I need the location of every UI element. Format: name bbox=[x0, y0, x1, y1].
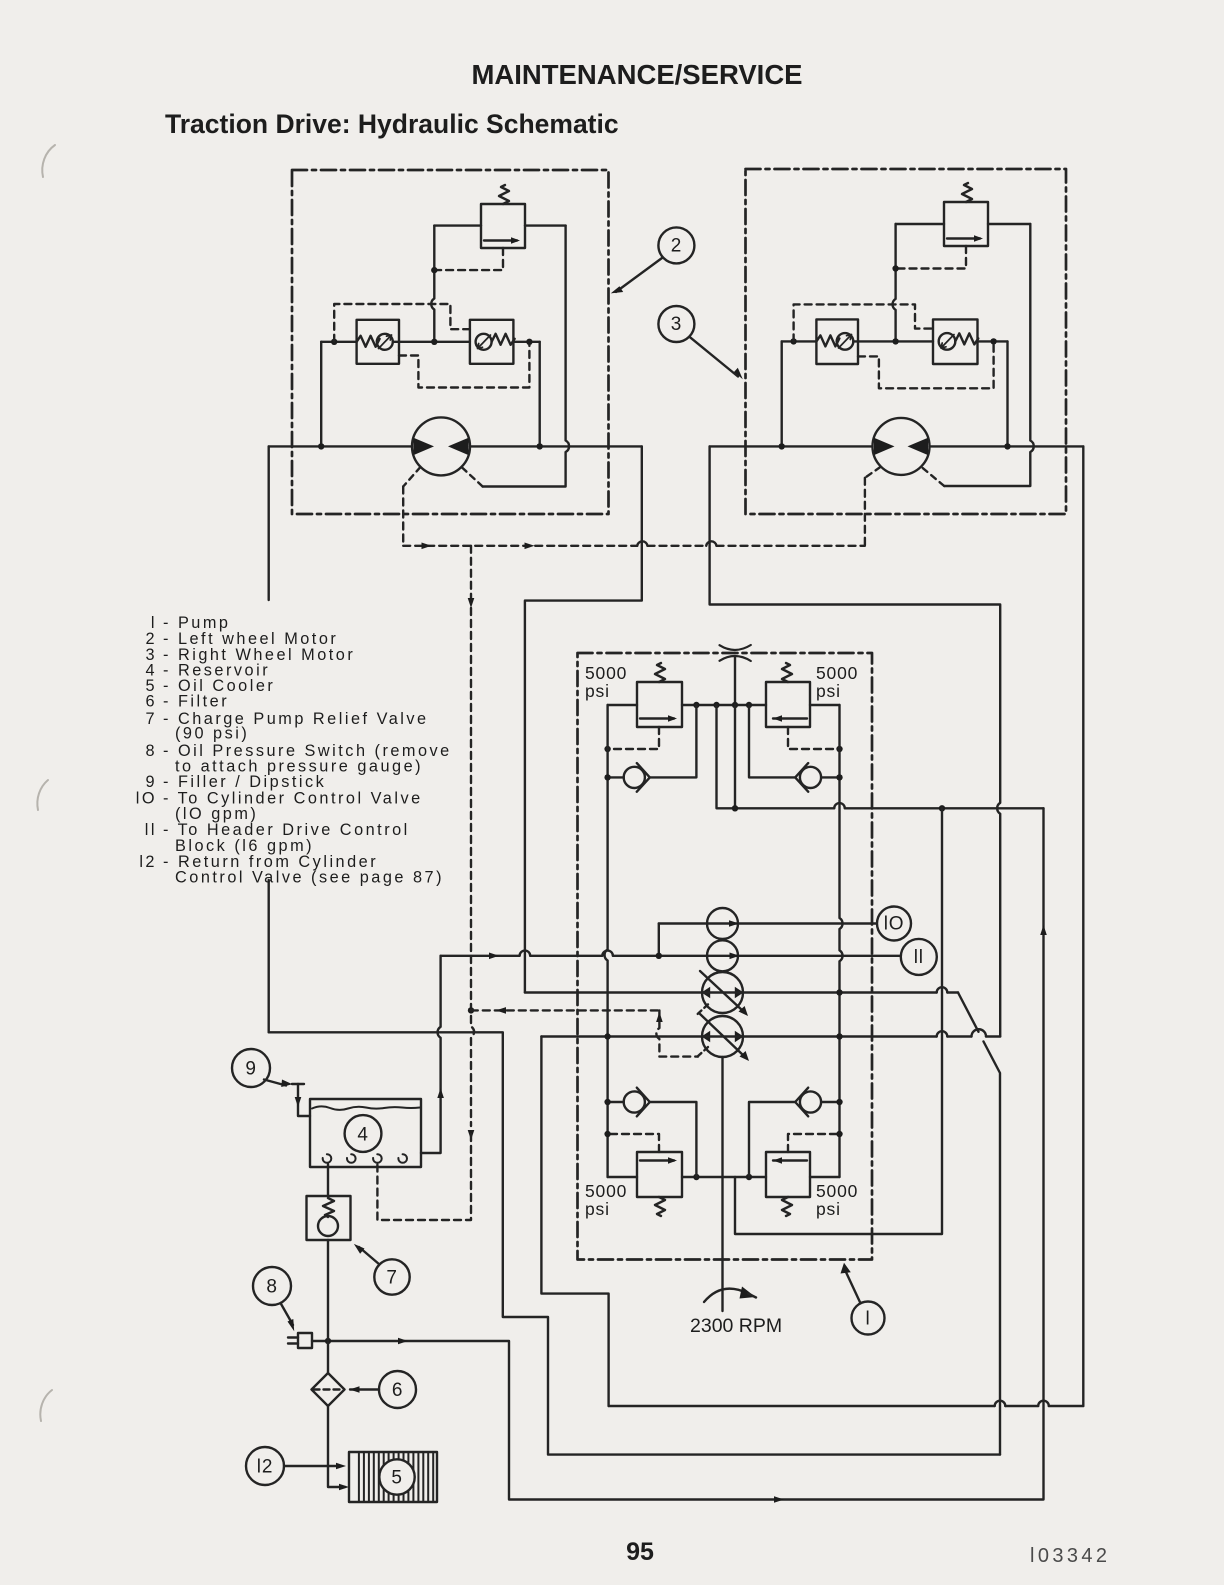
callout 7 leader bbox=[359, 1247, 380, 1265]
check valve CV2 seat bbox=[795, 763, 808, 792]
crossover valve cartridge A poppet circle bbox=[377, 334, 393, 350]
wire vertical from relief left down to valve line (jog) bbox=[893, 224, 896, 341]
relief valve RV4 (5000 psi lower-right) body bbox=[766, 1152, 810, 1197]
arrowhead charge line left bbox=[489, 953, 499, 960]
relief drain line y1177 bbox=[608, 1176, 840, 1178]
wire relief7 to switch junction bbox=[327, 1240, 329, 1373]
filter (item 6) diamond bbox=[312, 1373, 345, 1406]
pilot dashed lower (cartridge A drain loop) bbox=[399, 345, 529, 388]
node y1177 riser C bbox=[693, 1174, 699, 1180]
pilot dashed relief valve drain bbox=[434, 248, 503, 270]
main pump PA displacement arrow bbox=[700, 971, 743, 1011]
arrowhead down on filler line bbox=[295, 1097, 302, 1107]
wire CV1 left bbox=[608, 776, 624, 778]
servo pilot dashed riser with jog bbox=[656, 1010, 698, 1056]
jog y955.8 over x524.9 bbox=[520, 951, 531, 956]
crossover valve cartridge D body bbox=[933, 319, 978, 364]
main pump PB displacement arrow bbox=[700, 1014, 744, 1056]
charge pump relief valve (item 7) body bbox=[307, 1196, 351, 1240]
wire valve line left leg down to motor line bbox=[320, 342, 322, 447]
wire pump line B left end down-step to bottom runs bbox=[541, 1037, 608, 1407]
wire CV2 to riser B bbox=[749, 705, 795, 777]
relief valve RV3 internal arrow bbox=[640, 1159, 674, 1161]
crossover valve cartridge D spring bbox=[955, 333, 978, 344]
check valve CV4 circle bbox=[800, 1091, 821, 1112]
svg-text:9: 9 bbox=[145, 773, 157, 791]
relief valve RV2 (5000 psi upper-right) body bbox=[766, 682, 810, 727]
inlet strainer crossing symbol bbox=[720, 645, 751, 661]
callout 9 circle bbox=[232, 1049, 270, 1087]
check valve CV4 seat bbox=[795, 1088, 808, 1117]
node y705 strainer stem bbox=[732, 702, 738, 708]
enclosure box (left wheel motor assembly) bbox=[292, 170, 609, 514]
wire dashed diagonal to motor case (right) bbox=[922, 467, 945, 486]
main pump PA triangles bbox=[702, 987, 711, 999]
node y705 feed bbox=[713, 702, 719, 708]
svg-text:8: 8 bbox=[266, 1277, 277, 1298]
servo stub to pump PB bbox=[697, 1047, 708, 1057]
relief valve (right box) spring bbox=[962, 183, 972, 202]
charge feed line y808 bbox=[717, 705, 1044, 808]
svg-text:(90 psi): (90 psi) bbox=[175, 725, 249, 743]
drain bus arrowhead 1 bbox=[422, 543, 432, 550]
main pump PA circle bbox=[702, 972, 743, 1013]
crossover valve cartridge D poppet circle bbox=[939, 333, 956, 350]
wire right motor left end down-step to pump B line bbox=[710, 446, 1001, 1036]
oil pressure switch line y1341 bbox=[312, 808, 1044, 1499]
dashed return riser (legend side) main bbox=[471, 608, 474, 1126]
node valve line center junction bbox=[431, 339, 437, 345]
svg-text:8: 8 bbox=[145, 742, 157, 760]
charge pump relief spring bbox=[323, 1198, 334, 1217]
node RV4 pilot tap bbox=[836, 1131, 842, 1137]
node CV2 tap on HP rail bbox=[836, 774, 842, 780]
drain bus jog over right feed vertical bbox=[706, 541, 716, 545]
wire dashed case drain vertical to bus bbox=[864, 478, 866, 546]
svg-text:psi: psi bbox=[585, 1199, 610, 1219]
arrowhead P2 outlet bbox=[730, 953, 740, 960]
relief valve RV4 spring (below) bbox=[782, 1197, 792, 1216]
relief valve RV4 internal arrow bbox=[773, 1159, 807, 1161]
svg-text:4: 4 bbox=[357, 1125, 368, 1146]
relief valve RV2 internal arrow bbox=[773, 717, 807, 719]
callout 8 circle bbox=[253, 1267, 291, 1305]
main pump PB triangles bbox=[702, 1031, 711, 1043]
drain bus jog over left feed vertical bbox=[637, 541, 647, 545]
callout 8 leader bbox=[281, 1303, 294, 1325]
relief valve RV4 pilot dashed bbox=[788, 1134, 840, 1152]
relief valve RV1 spring bbox=[655, 663, 665, 682]
filter element dashed bbox=[314, 1388, 344, 1390]
arrowhead up on suction line bbox=[437, 1088, 444, 1098]
node motor line left valve leg bbox=[779, 443, 785, 449]
callout 12 leader bbox=[284, 1465, 336, 1467]
svg-text:lO: lO bbox=[136, 790, 157, 808]
wire right motor right end long vertical to bottom bbox=[1082, 446, 1084, 1406]
svg-text:psi: psi bbox=[585, 681, 610, 701]
svg-text:7: 7 bbox=[145, 710, 157, 728]
svg-text:ll: ll bbox=[145, 821, 157, 839]
svg-text:Control Valve (see page 87): Control Valve (see page 87) bbox=[175, 869, 444, 887]
reservoir outlet cup 3 bbox=[373, 1154, 382, 1163]
pilot dashed lower (cartridge C drain loop) bbox=[858, 345, 994, 389]
callout 3 leader bbox=[690, 337, 739, 377]
charge line y955.8 with jogs bbox=[441, 955, 901, 957]
HP rail right vertical (with jogs at charge lines) bbox=[840, 705, 843, 1177]
pilot dashed relief drain bbox=[896, 246, 966, 269]
filler/dipstick tick bbox=[292, 1083, 304, 1085]
charge pump P1 flow line + arrow bbox=[659, 922, 877, 924]
reservoir outlet cup 1 bbox=[323, 1154, 332, 1163]
wire valve line right leg down bbox=[1006, 341, 1008, 446]
node dashed return tee bbox=[468, 1007, 474, 1013]
crossover valve line (right box) bbox=[782, 340, 1008, 342]
jog y955.8 over HP left rail bbox=[602, 951, 613, 956]
svg-text:5: 5 bbox=[391, 1468, 402, 1489]
wire P1 branch from charge line bbox=[658, 924, 660, 956]
relief valve (left box) body bbox=[481, 204, 525, 248]
node CV3 tap bbox=[604, 1099, 610, 1105]
svg-text:psi: psi bbox=[816, 1199, 841, 1219]
relief valve RV3 spring (below) bbox=[655, 1197, 665, 1216]
callout 9 leader bbox=[264, 1080, 286, 1086]
svg-text:- Filler / Dipstick: - Filler / Dipstick bbox=[163, 773, 326, 791]
pilot dashed upper (to cartridge D) bbox=[794, 304, 933, 341]
wire vertical relief-right down across motor line (jog) to loop bbox=[944, 224, 1034, 486]
jog y1406 over x1043.5 bbox=[1038, 1401, 1049, 1406]
bottom run y1406 bbox=[609, 1405, 1084, 1407]
arrowhead on switch line bbox=[398, 1338, 408, 1345]
svg-text:psi: psi bbox=[816, 681, 841, 701]
jog pump line B over outlet drop bbox=[937, 1031, 948, 1036]
arrowhead up on servo riser bbox=[656, 1012, 663, 1022]
wire CV4 right bbox=[821, 1101, 839, 1103]
svg-text:MAINTENANCE/SERVICE: MAINTENANCE/SERVICE bbox=[471, 59, 802, 90]
wire relief left port to vertical bbox=[896, 223, 944, 225]
relief valve RV1 pilot dashed bbox=[608, 727, 659, 749]
jog y808 over HP rail bbox=[834, 803, 845, 808]
charge junction line y705 bbox=[608, 704, 840, 706]
node y808 outlet tee bbox=[939, 805, 945, 811]
node motor line right valve leg bbox=[537, 443, 543, 449]
crossover valve cartridge D arrow bbox=[941, 335, 954, 349]
relief valve RV1 (5000 psi upper-left) body bbox=[637, 682, 682, 727]
oil cooler fins bbox=[359, 1452, 433, 1502]
node P1 branch tee bbox=[656, 953, 662, 959]
wire strainer branch to y808 bbox=[734, 705, 736, 808]
enclosure box (right wheel motor assembly) bbox=[746, 169, 1067, 514]
callout 1 leader bbox=[845, 1270, 861, 1303]
jog pump line B over diagonal bbox=[972, 1029, 987, 1036]
crossover valve cartridge B spring bbox=[492, 334, 515, 345]
reservoir outlet cup 4 bbox=[398, 1154, 407, 1163]
arrowhead down on return riser lower bbox=[468, 1130, 475, 1140]
svg-text:5000: 5000 bbox=[816, 663, 858, 683]
svg-text:Traction Drive: Hydraulic Sche: Traction Drive: Hydraulic Schematic bbox=[165, 109, 619, 139]
charge pump relief poppet circle bbox=[318, 1216, 338, 1236]
relief valve RV2 spring bbox=[782, 663, 792, 682]
svg-text:5000: 5000 bbox=[816, 1181, 858, 1201]
motor M3 right triangle bbox=[908, 438, 929, 455]
node pump line B left tap bbox=[604, 1033, 610, 1039]
callout 12 circle bbox=[246, 1447, 284, 1485]
charge suction line to reservoir (vertical x440.6) bbox=[421, 956, 441, 1153]
svg-text:95: 95 bbox=[626, 1538, 654, 1566]
wire CV1 to riser A bbox=[650, 705, 697, 777]
crossover valve line (horizontal through both cartridges) bbox=[321, 341, 540, 343]
svg-text:l: l bbox=[865, 1309, 870, 1330]
jog pump line A over outlet drop bbox=[937, 987, 948, 992]
wire vertical relief-right down across motor line (jog) to loop bbox=[483, 226, 569, 487]
callout 7 circle bbox=[374, 1259, 409, 1294]
node CV4 tap bbox=[836, 1099, 842, 1105]
relief valve (right box) body bbox=[944, 202, 988, 246]
relief valve RV3 (5000 psi lower-left) body bbox=[637, 1152, 682, 1197]
arrowhead up on right return x1043.5 bbox=[1040, 925, 1047, 935]
node valve line center junction bbox=[892, 338, 898, 344]
node relief pilot junction bbox=[431, 267, 437, 273]
svg-text:- Filter: - Filter bbox=[163, 693, 229, 711]
wire left motor right end down-step to pump A line bbox=[525, 446, 642, 992]
node y705 riser A bbox=[693, 702, 699, 708]
node relief pilot junction bbox=[892, 265, 898, 271]
wire relief left port to vertical bbox=[434, 224, 481, 226]
HP rail left vertical bbox=[605, 705, 608, 1177]
svg-text:5000: 5000 bbox=[585, 1181, 627, 1201]
wire vertical from relief left down to valve line (with jog over pilot dashes) bbox=[431, 226, 434, 342]
pump line A y992.5 bbox=[525, 991, 958, 993]
crossover valve cartridge C body bbox=[816, 319, 858, 364]
callout 1 circle bbox=[852, 1302, 885, 1335]
wire CV3 left bbox=[608, 1101, 624, 1103]
wire valve line right leg down to motor line bbox=[539, 342, 541, 447]
reservoir tank body bbox=[310, 1099, 421, 1167]
wire dashed diagonal to motor case (right) bbox=[462, 467, 483, 487]
node RV2 pilot tap bbox=[836, 746, 842, 752]
wire filter to cooler bbox=[328, 1406, 345, 1487]
dashed return riser (legend side) top bbox=[470, 546, 472, 600]
node valve line right pilot tap bbox=[990, 338, 996, 344]
svg-text:l2: l2 bbox=[139, 853, 157, 871]
svg-text:l2: l2 bbox=[257, 1457, 273, 1478]
charge pump P2 circle bbox=[707, 940, 738, 971]
node motor line right valve leg bbox=[1004, 443, 1010, 449]
motor line (right box main horizontal) bbox=[710, 445, 1084, 447]
svg-text:ll: ll bbox=[914, 947, 924, 968]
callout 11 circle bbox=[901, 939, 937, 975]
enclosure box (pump assembly) bbox=[578, 653, 873, 1260]
svg-text:2: 2 bbox=[671, 236, 682, 257]
rotation arrow arc bbox=[704, 1289, 748, 1302]
crossover valve cartridge A arrow bbox=[379, 335, 392, 349]
servo pilot dashed horizontal bbox=[471, 1009, 660, 1011]
servo stub to pump PA bbox=[696, 1004, 708, 1015]
relief valve (left box) spring bbox=[499, 185, 509, 204]
svg-text:2300 RPM: 2300 RPM bbox=[690, 1315, 782, 1337]
motor M2 right triangle bbox=[448, 438, 469, 455]
arrowhead into cooler bbox=[339, 1484, 349, 1491]
oil cooler (item 5) body bbox=[349, 1452, 437, 1502]
callout 3 circle bbox=[658, 306, 694, 342]
svg-text:6: 6 bbox=[145, 693, 157, 711]
wire valve line left leg down bbox=[781, 341, 783, 446]
wire left motor line left end down to cooler return run bbox=[268, 446, 270, 600]
relief valve RV3 pilot dashed bbox=[608, 1134, 659, 1152]
arrowhead down on return riser bbox=[468, 598, 475, 608]
callout 5 circle (in cooler) bbox=[379, 1459, 414, 1494]
crossover valve cartridge B body bbox=[470, 320, 514, 364]
page curl marks bbox=[37, 145, 55, 1421]
node pump line A HP tap bbox=[836, 989, 842, 995]
svg-text:9: 9 bbox=[245, 1059, 256, 1080]
wire dashed motor case drain diagonal (left) bbox=[403, 467, 420, 487]
wire dashed motor case drain diagonal (left) bbox=[865, 467, 881, 478]
node y1177 riser D bbox=[746, 1174, 752, 1180]
check valve CV3 circle bbox=[624, 1091, 645, 1112]
pump drive shaft bbox=[721, 1057, 723, 1311]
wire reservoir suction down bbox=[327, 1164, 329, 1196]
filler/dipstick drop line bbox=[298, 1084, 310, 1116]
relief valve (left box) internal arrow bbox=[484, 239, 517, 241]
node valve line left pilot tap bbox=[790, 338, 796, 344]
wire CV3 to riser C bbox=[650, 1102, 697, 1177]
wire relief right port bbox=[525, 224, 566, 226]
motor M3 left triangle bbox=[874, 438, 895, 455]
wire dashed case drain vertical to drain bus bbox=[402, 487, 404, 546]
node CV1 tap on HP rail bbox=[604, 774, 610, 780]
oil pressure switch (item 8) body bbox=[298, 1333, 312, 1348]
crossover valve cartridge C arrow bbox=[839, 335, 852, 349]
node motor line left valve leg bbox=[318, 443, 324, 449]
drain bus dashed horizontal bbox=[403, 545, 865, 547]
wire relief right port bbox=[988, 223, 1030, 225]
arrowhead on bottom run y1496 bbox=[774, 1496, 784, 1503]
charge pump P1 circle bbox=[707, 908, 738, 939]
callout 2 leader bbox=[616, 258, 662, 292]
callout 6 circle bbox=[379, 1371, 416, 1408]
node RV3 pilot tap bbox=[604, 1131, 610, 1137]
crossover valve cartridge B poppet circle bbox=[476, 334, 492, 350]
callout 6 leader bbox=[350, 1388, 379, 1390]
svg-text:lO: lO bbox=[884, 914, 905, 935]
pump line B y1036.5 bbox=[541, 1035, 1000, 1037]
crossover valve cartridge C poppet circle bbox=[837, 333, 854, 350]
svg-text:7: 7 bbox=[386, 1268, 397, 1289]
node valve line right pilot tap bbox=[526, 339, 532, 345]
crossover valve cartridge A body bbox=[357, 320, 399, 364]
check valve CV2 circle bbox=[800, 767, 821, 788]
wire crossing symbol stem bbox=[734, 657, 736, 705]
crossover valve cartridge A spring bbox=[357, 336, 380, 347]
motor M2 (left wheel) circle bbox=[412, 417, 470, 475]
check valve CV1 circle bbox=[624, 767, 645, 788]
node valve line left pilot tap bbox=[331, 339, 337, 345]
svg-text:l03342: l03342 bbox=[1030, 1545, 1110, 1567]
jog y1406 over x1000 bbox=[995, 1401, 1006, 1406]
wire CV4 to riser D bbox=[749, 1102, 795, 1177]
wire outlet tee down to RV drain header bbox=[735, 808, 942, 1234]
pilot dashed upper (to cartridge B) bbox=[334, 304, 470, 342]
cooler return run from left motor rail bbox=[269, 1032, 1000, 1454]
wire CV2 right bbox=[821, 776, 839, 778]
relief valve RV1 internal arrow bbox=[640, 717, 674, 719]
node pump line B HP tap bbox=[836, 1033, 842, 1039]
oil pressure switch ticks bbox=[288, 1338, 298, 1344]
relief valve RV2 pilot dashed bbox=[788, 727, 840, 749]
node y808 strainer branch bbox=[732, 805, 738, 811]
check valve CV3 seat bbox=[637, 1088, 650, 1117]
motor M3 (right wheel) circle bbox=[873, 418, 930, 475]
reservoir oil level wave bbox=[312, 1106, 420, 1110]
svg-text:5000: 5000 bbox=[585, 663, 627, 683]
crossover valve cartridge C spring bbox=[816, 335, 839, 346]
dashed return riser to reservoir bbox=[377, 1134, 471, 1220]
node RV1 pilot tap bbox=[604, 746, 610, 752]
main pump PB circle bbox=[702, 1016, 743, 1057]
callout 2 circle bbox=[658, 227, 694, 263]
node y705 riser B bbox=[746, 702, 752, 708]
arrowhead left on servo dashed bbox=[496, 1007, 506, 1014]
reservoir outlet cup 2 bbox=[347, 1154, 356, 1163]
relief valve (right box) internal arrow bbox=[947, 237, 980, 239]
check valve CV1 seat bbox=[637, 763, 650, 792]
node switch line filter tap bbox=[325, 1338, 331, 1344]
callout 4 circle (in reservoir) bbox=[345, 1115, 382, 1152]
svg-text:6: 6 bbox=[392, 1380, 403, 1401]
callout 10 circle bbox=[877, 907, 911, 941]
motor line (left box main horizontal) bbox=[269, 445, 642, 447]
drain bus arrowhead 2 bbox=[525, 543, 535, 550]
motor M2 left triangle bbox=[414, 438, 435, 455]
svg-text:3: 3 bbox=[671, 314, 682, 335]
wire pump line A diagonal to lower right vertical bbox=[958, 993, 1000, 1455]
crossover valve cartridge B arrow bbox=[478, 335, 491, 349]
wire left rail resumes below legend bbox=[268, 880, 270, 1032]
